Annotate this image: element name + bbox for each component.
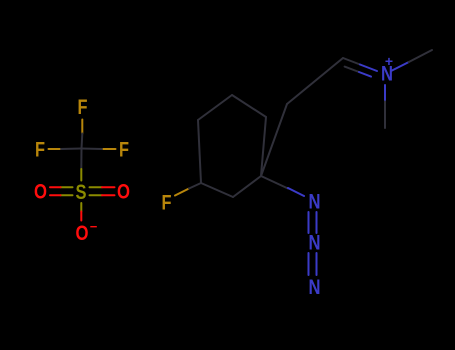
ring edge B-C upper left xyxy=(198,95,232,120)
ring edge F2-A bottom left xyxy=(201,183,233,197)
ring edge E-F2 bottom right xyxy=(233,176,261,197)
bond N-CH3 up right xyxy=(391,62,409,71)
bond ring C-F xyxy=(175,189,189,196)
bond C-F right xyxy=(102,148,116,150)
ring edge C-D upper right xyxy=(232,95,266,117)
svg-text:S: S xyxy=(76,181,87,204)
bond C-F left xyxy=(49,148,62,150)
svg-text:N: N xyxy=(309,191,321,214)
bond C-F top xyxy=(81,120,83,134)
bond ring C-N1 xyxy=(261,176,288,189)
svg-text:+: + xyxy=(385,53,393,69)
svg-text:F: F xyxy=(78,96,88,119)
bond S-O minus xyxy=(80,203,82,212)
svg-text:N: N xyxy=(309,276,321,299)
bond N-CH3 down xyxy=(384,85,386,101)
ring edge A-B left xyxy=(198,120,201,183)
bond CHb-CH xyxy=(287,58,343,104)
svg-text:F: F xyxy=(35,139,45,162)
bond ring-CHb xyxy=(261,104,287,176)
ring edge D-E right xyxy=(261,117,266,176)
svg-text:F: F xyxy=(162,192,172,215)
bond C-S xyxy=(80,149,82,170)
svg-text:−: − xyxy=(90,219,98,234)
svg-text:N: N xyxy=(309,232,321,255)
svg-text:O: O xyxy=(117,181,130,204)
svg-text:O: O xyxy=(34,181,47,204)
svg-text:O: O xyxy=(76,222,89,245)
double bond N2=N3 xyxy=(308,253,310,275)
svg-text:F: F xyxy=(119,139,129,162)
double bond CH=N+ xyxy=(343,58,360,65)
double bond N1=N2 xyxy=(308,212,310,233)
double bond S=O right xyxy=(90,186,103,188)
double bond S=O left xyxy=(61,186,73,188)
